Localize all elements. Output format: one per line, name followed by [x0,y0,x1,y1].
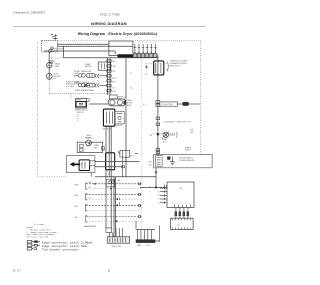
board bottom pin labels [174,203,191,205]
svg-text:MOTOR SW: MOTOR SW [103,128,112,130]
cycling thermostat long box [160,102,178,106]
selector tab [87,99,89,102]
drive motor oval [108,99,126,106]
motor connector bold box [103,109,114,126]
svg-text:N: N [150,191,151,193]
edge connector bold box on bus [106,153,115,170]
start switch wire dashed [49,92,109,94]
motor winding 2 [117,100,122,105]
conn1 entry wires [110,228,123,237]
edge connector ladder pair [107,58,109,93]
enclosure connector strip [156,156,163,167]
heater feed wire [109,55,118,57]
timer switch box label [85,64,92,68]
stub labels left far [149,186,151,193]
selector inner marks [79,103,83,105]
interboard wires [176,208,188,219]
heater box left side [108,41,110,56]
svg-text:WIRING: WIRING [185,147,192,149]
svg-text:N-1: N-1 [143,104,146,106]
connector marks on relay wire at row [156,101,160,107]
ladder pin boxes [107,60,111,92]
buzzer labels [150,133,175,143]
svg-text:(P-T): (P-T) [163,142,167,144]
svg-text:L1-BK: L1-BK [74,73,78,75]
row1 junction dot left [94,183,96,185]
small connector box above conn1 [106,228,112,233]
chassis ground symbol [48,61,54,63]
motor winding 1 [110,100,115,105]
svg-text:2: 2 [138,42,139,44]
bottom wire verticals [105,126,107,228]
motor feed wires [108,93,110,96]
row right end ticks [138,183,140,218]
svg-text:START WINDING RELAY: START WINDING RELAY [75,89,95,92]
svg-text:2-BR: 2-BR [88,187,91,189]
buzzer crossed circle [162,131,170,138]
bundle pin box at row1 [106,179,115,187]
centrifugal switch box [115,111,124,124]
connector marks on x158 upper [156,117,160,125]
right margin tiny note [190,129,194,134]
wire vertical x63.5 [63,46,65,58]
relay vertical wire [157,55,159,155]
drive motor label [127,100,134,107]
svg-text:L1-RD: L1-RD [112,66,116,68]
svg-text:4: 4 [146,42,147,44]
svg-text:T-BK: T-BK [112,71,115,73]
conn1 pin hatch [110,238,126,243]
belt switch box [122,151,129,158]
junction blob [155,186,157,188]
left branch wire [48,52,50,80]
svg-text:BELT: BELT [130,155,134,157]
centrifugal switch contact circle [118,116,121,119]
wire lower lead [44,50,115,52]
legend symbol 2 [27,244,88,248]
selector switch outer box [75,99,86,101]
wire L1 bus [57,43,109,45]
relay left dashed lead [146,63,154,65]
svg-text:GROUND WIRE TO: GROUND WIRE TO [179,157,194,159]
belt switch wire down [125,157,127,161]
svg-text:1/4HP: 1/4HP [127,105,131,107]
power cord entry mark [52,34,57,40]
long vertical wire x126 [125,58,127,177]
svg-text:N-2: N-2 [130,88,133,90]
heater relay bold box [154,61,164,75]
buzzer dashed wire [153,133,176,135]
conn2 wires [138,230,152,240]
svg-text:GY-1: GY-1 [149,164,153,166]
thermostat row 1 [74,74,107,78]
svg-text:N.C.: N.C. [53,78,57,80]
wire into board [140,186,167,188]
selector feed dashed [70,93,72,98]
wire B end tick [122,166,125,168]
svg-text:BZ: BZ [150,135,152,137]
svg-text:60Hz: 60Hz [94,147,98,149]
left branch wire lower dashed [48,80,50,93]
power cord dot [51,34,52,35]
timer motor circle [86,140,92,146]
relay right dashed leads [164,63,167,70]
junction node on terminal block [51,47,54,50]
svg-text:(SEE NOTE 2): (SEE NOTE 2) [170,65,181,67]
solid chassis run [95,176,156,178]
svg-text:TIMER: TIMER [86,135,92,137]
svg-text:8/07: 8/07 [13,269,22,273]
motor labels below [103,125,123,130]
display board A2 [171,218,194,229]
thermostat row 2 [78,83,107,87]
timer body box [77,142,102,152]
svg-text:1-WH: 1-WH [88,182,92,184]
heater element bar [118,54,134,57]
collector wire to conn2 [136,229,155,231]
svg-text:EDGE CONN: EDGE CONN [112,246,121,248]
drum lamp DL [47,63,52,68]
svg-text:BR-2: BR-2 [149,162,153,164]
junction dot below enclosure [155,171,157,173]
svg-text:J5: J5 [158,202,160,204]
buzzer lead end bracket [175,132,178,138]
conn2 label [137,244,151,247]
wire short lead [50,48,63,50]
thermostat row 2 label [74,82,89,84]
svg-text:WIRING DIAGRAM: WIRING DIAGRAM [91,22,127,26]
heater connector hatch row [133,53,157,57]
svg-text:OUTLET CONTROL: OUTLET CONTROL [74,82,89,84]
svg-text:EPQC17TNW0: EPQC17TNW0 [100,12,120,16]
display board pins bottom [173,228,191,230]
bottom connector 2 band [136,240,155,243]
relay note bracket [167,62,168,71]
bottom notes block [27,223,58,238]
timer motor squiggle [85,136,90,139]
centrifugal switch marks [117,114,122,122]
switch box ground stub [90,173,92,177]
board left stubs [160,188,167,203]
thermal fuse dark circles [182,102,189,106]
board bottom pins [174,205,190,208]
wire below enclosure [155,168,157,188]
svg-text:J4: J4 [158,199,160,201]
motor brush block [124,101,126,105]
selector label below [75,109,87,115]
relay left cross mark [145,65,148,68]
svg-text:SWITCH: SWITCH [77,112,84,114]
svg-text:* = N WIRE: * = N WIRE [32,223,45,226]
pin stub labels [134,42,156,44]
wire vertical drop x115 [114,51,116,54]
terminal block TB [42,41,58,52]
cabinet top dashed boundary [57,40,109,42]
svg-text:S-YL: S-YL [112,88,115,90]
L wire from right [155,226,160,242]
bottom connector 1 band [107,237,130,243]
relay inner bars [156,63,161,73]
heater box top [109,40,133,42]
inter-row marks [119,198,121,205]
svg-text:J2: J2 [158,191,160,193]
harness switch outer box [66,156,95,173]
bus line through box [108,126,110,177]
harness pair group 1 [75,183,142,190]
svg-text:DRY CYCLE POSITION.: DRY CYCLE POSITION. [27,236,50,239]
svg-text:G-GN: G-GN [112,91,116,93]
svg-text:Wiring Diagram - Electric Dr: Wiring Diagram - Electric Dryer (A004546… [78,32,157,36]
console dashed divider x141.8 [141,58,143,231]
harness pair group 2 [75,194,142,200]
electronic control board A1 [167,182,194,208]
svg-text:CENT. SW: CENT. SW [116,125,124,127]
heater box right side [132,41,134,53]
main horizontal bus y57.8 [64,57,158,59]
neutral lug circle on lower lead [49,50,52,53]
svg-text:DRIVE: DRIVE [127,100,132,102]
wire B through box [95,166,123,168]
svg-text:WHT: WHT [75,185,79,187]
board stub hatch marks [163,185,165,204]
svg-text:L-5: L-5 [130,73,132,75]
pin stubs above hatch row [134,44,157,53]
harness bold connector box [79,160,90,171]
timer inner text [94,145,100,149]
timer inner contact marks [79,145,83,152]
timer right tab [102,147,105,151]
svg-text:N.O. HELD: N.O. HELD [66,86,75,88]
svg-text:MOTOR: MOTOR [127,103,134,105]
motor connector inner bars [107,112,113,124]
svg-text:H-OR: H-OR [112,82,116,84]
harness connector inner bars [82,162,85,169]
tiny text near enclosure left [149,162,153,167]
console enclosure box top right [154,154,213,167]
belt switch tick right [135,152,138,154]
timer motor label [86,135,93,139]
drum lamp label [55,64,61,68]
svg-text:NOTE 3: NOTE 3 [185,150,191,152]
selector inner bold box [76,102,86,107]
svg-text:YEL: YEL [75,217,78,219]
interboard pin symbols [175,212,189,216]
wire selector to motor [89,103,108,105]
svg-text:Publication No. 5995545573: Publication No. 5995545573 [14,12,46,15]
svg-text:J3: J3 [158,195,160,197]
enclosure note text [179,157,195,162]
svg-text:N-BU: N-BU [112,61,115,63]
door switch label [53,74,60,80]
belt switch bracket [118,150,122,157]
svg-text:Tab header connector.: Tab header connector. [42,247,81,251]
legend symbol 1 [27,240,94,244]
svg-text:3-OR: 3-OR [88,198,91,200]
timer switch box inner bars [101,63,104,68]
enclosure ground cluster [168,157,176,165]
wire N bus [57,45,133,47]
note text right lower [185,147,192,151]
connector marks on x158 lower [156,149,160,154]
right bus L2 vertical [199,41,201,155]
display board pins top [173,218,191,220]
svg-text:-A1: -A1 [179,187,182,190]
buzzer junction dot [157,133,160,136]
svg-text:L1: L1 [149,186,151,188]
strip dashes [157,158,161,165]
relay note text [170,60,189,68]
wire A through box [95,161,139,163]
harness pair group 4 [75,216,142,222]
push to start label [66,81,79,88]
cabinet dashed boundary left [38,42,67,177]
black arrow [70,162,81,167]
door switch DS [46,73,52,79]
ladder pin labels [112,61,116,93]
ground wire dashed [51,58,63,61]
svg-text:M-WH: M-WH [112,78,116,80]
svg-text:MOTOR: MOTOR [86,138,93,140]
svg-text:MTR PLUG: MTR PLUG [118,97,127,99]
push to start contact [84,83,90,88]
legend symbol 3 [27,247,81,251]
page header rule [13,25,206,27]
svg-text:INTERNAL TIMER MOTOR: INTERNAL TIMER MOTOR [164,120,192,123]
selector lower dashed stub [77,114,79,121]
board stub labels [158,191,160,204]
harness right small box [90,160,95,165]
svg-text:SWITCH: SWITCH [85,66,92,68]
harness pair group 3 [75,205,142,211]
row wire to right bus [178,103,183,105]
motor feed box [109,95,117,99]
timer switch top box [98,62,111,70]
